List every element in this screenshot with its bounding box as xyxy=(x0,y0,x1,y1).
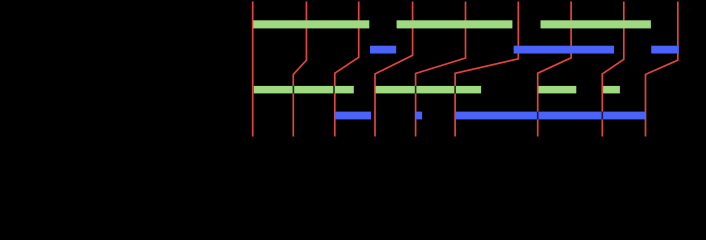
vsync line V7 xyxy=(538,2,571,137)
row1 blue bar C xyxy=(651,46,679,54)
vsync line V9 xyxy=(646,2,678,137)
row1 green bar B xyxy=(397,20,513,28)
frame divider tick on row2 green at V3 xyxy=(333,86,335,94)
vsync line V1 xyxy=(252,2,254,137)
row2 green bar A xyxy=(254,86,354,94)
frame divider tick on row2 green at V2 xyxy=(293,86,295,94)
vsync line V6 xyxy=(455,2,518,137)
row1 green bar C xyxy=(541,20,651,28)
vsync line V3 xyxy=(335,2,359,137)
frame divider tick on row2 blue at V8 xyxy=(602,112,604,120)
timing chart: two timelines of green/blue frame bars linked by red vsync mapping lines xyxy=(0,0,706,164)
frame divider tick on row2 green at V5 xyxy=(415,86,417,94)
row1 blue bar B xyxy=(514,46,615,54)
row2 blue bar A xyxy=(335,112,371,120)
row1 green bar A xyxy=(253,20,369,28)
row2 green bar C xyxy=(539,86,577,94)
vsync line V5 xyxy=(416,2,466,137)
row2 green bar B xyxy=(376,86,482,94)
row2 green bar D xyxy=(603,86,620,94)
vsync line V8 xyxy=(602,2,624,137)
frame divider tick on row2 green at V6 xyxy=(454,86,456,94)
row2 blue bar C xyxy=(455,112,645,120)
vsync line V2 xyxy=(293,2,306,137)
row2 blue bar B xyxy=(416,112,422,120)
vsync line V4 xyxy=(375,2,413,137)
row1 blue bar A xyxy=(370,46,396,54)
frame divider tick on row2 blue at V7 xyxy=(537,112,539,120)
